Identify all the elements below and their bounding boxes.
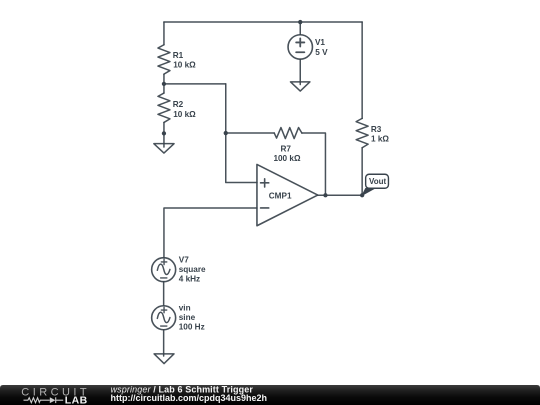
source V7 [152,258,176,282]
wire vin to ground [163,330,165,356]
wire R3 bottom lead [361,148,363,196]
svg-text:1 kΩ: 1 kΩ [371,135,389,144]
junction node plus column / R7 [224,131,228,135]
svg-text:V7: V7 [179,255,189,264]
wire R7 left lead [226,132,275,134]
wire node A to comparator column [164,83,226,85]
svg-text:R1: R1 [173,51,184,60]
svg-text:vin: vin [179,304,191,313]
wire minus input [164,208,257,258]
svg-text:R7: R7 [280,145,291,154]
resistor R1 [158,45,170,74]
ground vin [154,354,174,364]
op-amp CMP1 [257,164,318,225]
wire R7 right lead down to output [302,133,326,195]
wire V7 to vin [163,282,165,306]
ground R2 [154,144,174,153]
wire comparator output [318,194,362,196]
svg-text:sine: sine [179,313,196,322]
ground V1 [290,82,310,91]
wire down to plus input [226,84,257,183]
svg-text:square: square [179,265,206,274]
wire V1 top lead [299,22,301,35]
svg-text:V1: V1 [315,38,325,47]
logo resistor squiggle + diode [24,397,64,403]
svg-text:10 kΩ: 10 kΩ [173,61,196,70]
resistor R2 [158,93,170,122]
wire right rail [361,22,363,118]
svg-text:CMP1: CMP1 [269,191,292,200]
resistor R7 [274,128,302,139]
voltage source V1 [288,35,312,59]
svg-text:100 kΩ: 100 kΩ [273,154,300,163]
junction node feedback / output [323,193,327,197]
svg-text:R2: R2 [173,100,184,109]
svg-text:5 V: 5 V [315,48,328,57]
resistor R3 [356,118,368,147]
svg-text:LAB: LAB [65,395,88,405]
svg-text:10 kΩ: 10 kΩ [173,110,196,119]
wire R2 to ground [163,122,165,147]
wire R1 top lead [163,22,165,45]
logo diode triangle [50,397,56,403]
svg-text:R3: R3 [371,125,382,134]
junction node top rail / V1 [298,20,302,24]
junction node output / R3 [360,193,364,197]
wire R1-R2 [163,74,165,93]
svg-text:100 Hz: 100 Hz [179,323,205,332]
footer bar [0,385,540,405]
junction node A (R1/R2) [162,82,166,86]
svg-text:4 kHz: 4 kHz [179,274,200,283]
junction node R2 ground [162,131,166,135]
source vin [152,306,176,330]
wire V1 to ground [299,59,301,84]
svg-text:Vout: Vout [369,177,387,186]
svg-text:http://circuitlab.com/cpdq34us: http://circuitlab.com/cpdq34us9he2h [111,393,268,403]
node flag Vout [362,174,388,195]
wire top rail [164,21,362,23]
